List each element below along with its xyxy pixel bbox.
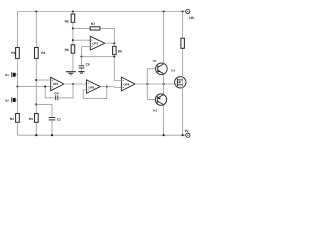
wire Tr3 drain-source column through circle [182, 48, 184, 135]
node junction dot OP1 output feedback tap [72, 83, 74, 85]
svg-text:UB: UB [189, 16, 194, 20]
wire Tr1 base branch [147, 69, 155, 84]
node junction dot OP3 + input tap [72, 39, 74, 41]
wire Tr1 collector to rail [163, 12, 165, 64]
svg-text:C4: C4 [55, 92, 59, 96]
transistor Tr3 FET circle [175, 77, 186, 88]
node junction dot rail-R9 [182, 10, 184, 12]
capacitor C4 left plate [55, 95, 57, 100]
piezo sensor B2 body box [13, 98, 16, 102]
node junction dot C1-rail [51, 134, 53, 136]
op-amp OP4 input marks [123, 80, 124, 88]
node junction dot Tr2-rail [163, 134, 165, 136]
wire R5 top lead [72, 12, 74, 15]
terminal 0V circle [186, 133, 190, 137]
wire emitters junction to Tr2 [163, 84, 165, 94]
node junction dot rail-Tr1 collector [163, 10, 165, 12]
resistor R5 [71, 14, 75, 22]
svg-text:Tr3: Tr3 [171, 68, 176, 72]
wire feedback row to R8 bottom [82, 56, 115, 58]
wire R3 bottom through taps to R4 [35, 59, 37, 114]
ground symbol below C6 [78, 72, 84, 74]
wire Tr2 base branch [147, 84, 155, 100]
piezo sensor B1 stub to column [16, 74, 18, 76]
transistor Tr2 emitter stroke with arrow [157, 95, 163, 100]
wire Tr1 emitter to junction [163, 75, 165, 85]
svg-text:B1: B1 [5, 73, 9, 77]
resistor R6 [71, 45, 75, 53]
wire OP4 output row to FET gate [135, 83, 175, 85]
node A junction dot R1/R2 divider [16, 86, 18, 88]
wire R7 right lead and column down to OP3 output node [100, 28, 114, 43]
node junction dot base drive [146, 83, 148, 85]
op-amp OP1 input marks [52, 80, 53, 87]
svg-text:R4: R4 [29, 117, 33, 121]
op-amp OP3 input marks [92, 40, 93, 47]
wire R6 bottom to ground [72, 53, 74, 71]
svg-text:R3: R3 [41, 51, 45, 55]
svg-text:R6: R6 [65, 48, 69, 52]
svg-text:C1: C1 [57, 118, 61, 122]
wire R5 bottom through taps to R6 [72, 22, 74, 44]
piezo sensor B1 plate bar [11, 72, 13, 77]
svg-text:OP3: OP3 [92, 42, 98, 46]
transistor Tr1 base bar [157, 65, 159, 72]
svg-text:R5: R5 [65, 19, 69, 23]
svg-text:C6: C6 [86, 63, 90, 67]
wire top supply rail [18, 11, 186, 13]
op-amp OP4 [121, 77, 134, 91]
resistor R2 [16, 114, 20, 123]
op-amp OP2 [87, 80, 101, 93]
transistor Tr1 collector stroke [158, 64, 164, 67]
op-amp OP2 input marks [88, 83, 89, 90]
svg-text:0V: 0V [185, 129, 190, 133]
transistor Tr2 collector stroke [157, 101, 163, 104]
capacitor C1 bottom plate [49, 119, 56, 121]
ground symbol below R6 [66, 72, 76, 75]
transistor Tr3 source link [177, 84, 182, 86]
wire R8 leads [113, 43, 115, 56]
transistor Tr1 emitter stroke with arrow [158, 70, 164, 74]
node junction dot OP2 output feedback tap [106, 86, 108, 88]
piezo sensor B2 plate bar [11, 97, 13, 102]
resistor R1 [16, 48, 20, 59]
svg-text:B2: B2 [5, 99, 9, 103]
wire R4 bottom to rail [35, 122, 37, 135]
wire C4 feedback right leg to OP1 output [58, 84, 73, 98]
svg-text:OP2: OP2 [89, 86, 95, 90]
transistor Tr3 arrow [178, 81, 180, 83]
op-amp OP1 [51, 77, 64, 90]
capacitor C6 bottom plate [79, 67, 85, 69]
resistor R7 [90, 27, 100, 30]
resistor R4 [35, 114, 39, 123]
wire OP3 output to R8 top [105, 42, 114, 44]
wire R3 column top [35, 12, 37, 48]
wire R7 left lead [73, 27, 90, 29]
piezo sensor B1 body box [13, 73, 16, 77]
svg-text:R1: R1 [11, 51, 15, 55]
wire bottom 0V rail [18, 134, 186, 136]
node junction dot R3 to OP1 + input [35, 79, 37, 81]
node junction dot C6/feedback [80, 56, 82, 58]
wire left column from rail to R1 [17, 12, 19, 48]
node junction dot R5/R7 [72, 27, 74, 29]
resistor R3 [35, 48, 39, 59]
capacitor C4 right plate [57, 95, 59, 100]
piezo sensor B2 stub to column [16, 99, 18, 101]
svg-text:R8: R8 [118, 50, 122, 54]
wire row2 node A to OP1 inverting input [18, 86, 51, 88]
svg-text:Tr1: Tr1 [152, 59, 157, 63]
node junction dot rail-R3 [35, 10, 37, 12]
capacitor C6 top plate [79, 65, 85, 67]
wire R9 top to rail [182, 12, 184, 39]
wire C1 to ground rail [51, 120, 53, 135]
svg-text:OP1: OP1 [53, 82, 59, 86]
transistor Tr2 base bar [156, 96, 158, 103]
wire OP2 feedback loop [83, 87, 107, 99]
wire OP3 + input row [73, 39, 90, 41]
resistor R8 [113, 46, 117, 54]
wire node A to R2 [17, 87, 19, 114]
node junction dot OP3 output [113, 42, 115, 44]
resistor R9 [181, 38, 185, 48]
transistor Tr3 drain link [177, 79, 182, 81]
transistor Tr1 circle [156, 63, 168, 75]
wire OP3 feedback column [81, 47, 83, 57]
svg-text:OP4: OP4 [123, 82, 129, 86]
terminal UB circle [186, 9, 190, 13]
node junction dot C4 tap on inverting row [44, 86, 46, 88]
transistor Tr2 circle [155, 94, 166, 105]
wire R1 bottom to node A [17, 59, 19, 87]
transistor Tr3 gate bar [176, 79, 178, 87]
wire OP1 output to OP2 input [64, 83, 87, 85]
node junction dot R8 bottom [113, 56, 115, 58]
wire R8 node down to OP4 + input [114, 57, 121, 81]
node junction dot C1 tap [35, 103, 37, 105]
wire Tr2 bottom to rail [163, 105, 165, 135]
wire R2 bottom to ground rail [17, 122, 19, 135]
wire C4 feedback left leg [45, 87, 55, 98]
svg-text:Tr2: Tr2 [153, 108, 158, 112]
node junction dot Tr3-rail [182, 134, 184, 136]
wire C6 bottom to ground [81, 68, 83, 71]
node junction dot rail-R5 [72, 10, 74, 12]
wire OP3 inverting input row [82, 46, 91, 48]
op-amp OP3 [90, 36, 105, 50]
wire C6 top lead [81, 57, 83, 66]
svg-text:R2: R2 [10, 117, 14, 121]
wire C1 branch [36, 104, 52, 117]
wire OP1 + input row [36, 79, 50, 81]
node junction dot R4-rail [35, 134, 37, 136]
svg-text:R7: R7 [91, 22, 95, 26]
capacitor C1 top plate [49, 117, 56, 119]
node junction dot emitters [163, 83, 165, 85]
wire OP2 output to OP4 inverting input [100, 86, 121, 89]
